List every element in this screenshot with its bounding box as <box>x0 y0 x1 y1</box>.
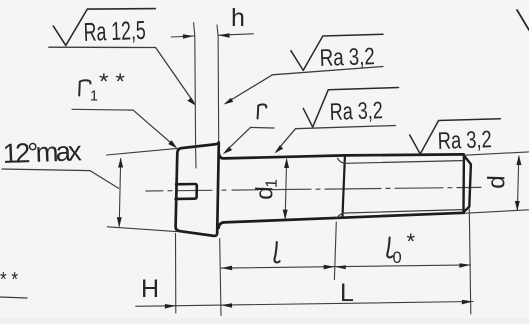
r1 label <box>79 80 90 95</box>
svg-text:12°max: 12°max <box>2 135 82 169</box>
Ra 12,5 baseline and leader arrow to slot line <box>49 47 194 102</box>
Ra 3,2 symbol #2 (shank surface) <box>303 88 398 128</box>
Ra 3,2 #2 baseline and leader arrow to shank surface <box>277 126 395 151</box>
H and L dimension line <box>136 302 473 307</box>
Ra 3,2 symbol #1 (head bearing face) <box>291 34 383 70</box>
l and l0 dimension line <box>221 265 471 268</box>
svg-text:* *: * * <box>99 69 125 94</box>
svg-text:H: H <box>141 275 159 303</box>
footnote underline <box>0 297 27 298</box>
thread minor diameter thin lines with runout hooks <box>337 158 462 217</box>
Ra 12,5 roughness symbol <box>53 9 155 46</box>
d1 dimension line with arrows <box>285 160 286 219</box>
dimension h line with outside arrows <box>171 34 253 37</box>
d dimension line with arrows <box>517 157 518 210</box>
r label <box>258 104 267 118</box>
head cone extension lines (left) <box>107 148 178 231</box>
l label <box>274 242 279 262</box>
corner roughness mark top-right <box>517 10 529 30</box>
svg-text:*: * <box>407 229 416 254</box>
Ra 3,2 #1 baseline and leader arrow to head face line <box>227 67 383 103</box>
svg-text:d: d <box>483 175 510 189</box>
svg-text:Ra 3,2: Ra 3,2 <box>329 97 383 126</box>
l0* label <box>387 238 392 258</box>
H extension lines below head <box>176 234 222 316</box>
tip extension line below <box>469 209 471 314</box>
centerline (screw axis) <box>146 187 481 191</box>
svg-text:Ra 12,5: Ra 12,5 <box>83 15 146 47</box>
thread boundary line <box>343 156 345 217</box>
thread-end extension line below shaft <box>334 222 336 280</box>
svg-text:h: h <box>231 4 245 32</box>
r1 leader with arrow to head corner <box>72 109 175 146</box>
svg-text:1: 1 <box>90 89 98 105</box>
head slot bottom (thick) <box>176 184 197 199</box>
r leader with arrow to head/shaft fillet <box>226 127 274 151</box>
dimension h extension lines <box>194 23 219 168</box>
head outline <box>176 142 219 236</box>
12°max leader <box>2 169 119 188</box>
svg-text:* *: * * <box>0 269 18 291</box>
thread chamfer at tip <box>464 154 471 212</box>
d dimension extension lines at tip <box>465 152 529 213</box>
svg-text:L: L <box>340 279 354 307</box>
shaft upper/lower outline with head fillets r <box>219 153 464 229</box>
Ra 3,2 symbol #3 (thread surface, sits on line) <box>410 119 501 154</box>
svg-text:Ra 3,2: Ra 3,2 <box>437 126 492 155</box>
head small-end dimension line with arrows <box>119 159 121 227</box>
svg-text:0: 0 <box>393 249 402 267</box>
svg-text:1: 1 <box>264 179 281 189</box>
